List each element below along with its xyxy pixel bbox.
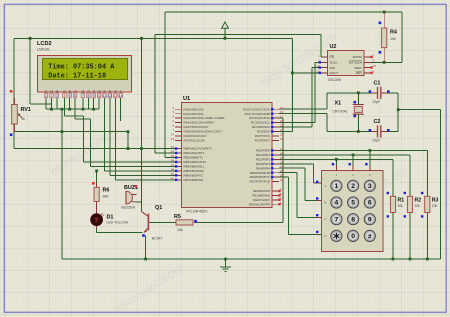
wire LCD D7 stub — [120, 98, 122, 121]
svg-text:RC7/RX/DT: RC7/RX/DT — [255, 138, 270, 142]
wire C right rail — [388, 93, 398, 132]
svg-text:B: B — [325, 201, 327, 205]
svg-text:RD3/PSP3: RD3/PSP3 — [256, 162, 270, 166]
wire U2 DIN to RC4 — [279, 68, 321, 127]
wire VEE drop to ground rail — [61, 109, 63, 259]
svg-text:R5: R5 — [174, 214, 181, 220]
svg-text:CRYSTAL: CRYSTAL — [333, 110, 348, 114]
wire RD3 to keypad row A — [279, 164, 322, 183]
svg-text:Time: 07:35:04 A: Time: 07:35:04 A — [48, 63, 115, 71]
svg-text:RB1/AN10/INT1: RB1/AN10/INT1 — [184, 151, 205, 155]
junction R3 ground — [426, 258, 429, 261]
svg-text:R3: R3 — [432, 198, 439, 204]
svg-text:D4: D4 — [103, 89, 107, 93]
svg-text:22pF: 22pF — [373, 100, 381, 104]
svg-text:RC3/SCK/SCL: RC3/SCK/SCL — [251, 121, 270, 125]
keypad column marks — [336, 173, 371, 177]
wire ground rail bottom — [62, 258, 441, 260]
svg-text:23: 23 — [280, 124, 284, 128]
U1 right pin numbers — [280, 106, 284, 205]
wire LCD RS to RB3 — [64, 98, 175, 162]
svg-text:SCLK: SCLK — [330, 61, 339, 65]
svg-text:11: 11 — [103, 94, 107, 98]
svg-text:10k: 10k — [415, 204, 421, 208]
svg-text:35: 35 — [171, 154, 175, 158]
svg-text:22: 22 — [280, 160, 284, 164]
resistor R1 — [390, 196, 395, 212]
marker R5 right — [194, 220, 197, 223]
svg-text:24: 24 — [280, 128, 284, 132]
wire left rail to RV1 — [13, 38, 15, 104]
marker R6 top — [92, 182, 95, 185]
svg-text:7: 7 — [82, 94, 84, 98]
wire C rail to right edge down to ground — [398, 110, 440, 259]
svg-text:39: 39 — [171, 172, 175, 176]
svg-text:RC0/T1OSO/T13CKI: RC0/T1OSO/T13CKI — [243, 107, 270, 111]
svg-text:INT/SQW: INT/SQW — [349, 61, 362, 65]
wire RD1 to keypad col2 and R2 — [279, 155, 410, 196]
svg-text:25: 25 — [280, 133, 284, 137]
svg-text:LED-YELLOW: LED-YELLOW — [107, 221, 130, 225]
potentiometer RV1 — [12, 98, 23, 132]
svg-text:RE0/RD/AN5: RE0/RD/AN5 — [253, 189, 270, 193]
junction keypad col2 — [352, 154, 355, 157]
U2 left pin labels — [330, 55, 339, 75]
markers keypad top pins — [332, 163, 368, 165]
svg-text:4: 4 — [335, 200, 339, 207]
svg-text:R1: R1 — [398, 198, 405, 204]
wire RD5 to keypad row C — [279, 173, 322, 218]
marker Q1 emitter — [142, 234, 145, 237]
svg-text:4: 4 — [63, 94, 65, 98]
svg-text:RB2/AN8/INT2: RB2/AN8/INT2 — [184, 156, 204, 160]
wire RV1 bottom to VEE bus — [14, 124, 128, 149]
capacitor C1 — [371, 87, 389, 99]
svg-text:12: 12 — [108, 94, 112, 98]
junction ground symbol — [224, 258, 227, 261]
svg-text:RD2/PSP2: RD2/PSP2 — [256, 157, 270, 161]
junction R2 ground — [409, 258, 412, 261]
wire crystal bottom rail to RC1 — [279, 114, 371, 132]
svg-text:DIN: DIN — [330, 66, 335, 70]
svg-text:BC547: BC547 — [152, 237, 162, 241]
LCD pin name marks — [44, 89, 123, 95]
svg-text:8: 8 — [87, 94, 89, 98]
wire crystal bottom lead net — [357, 114, 359, 131]
keypad KEYPAD-SMALLCALC — [316, 166, 383, 252]
resistor R5 — [176, 220, 193, 225]
svg-text:RA0/AN0/C1IN-: RA0/AN0/C1IN- — [184, 107, 204, 111]
marker X1 top — [354, 101, 357, 104]
wire RD2 to keypad col1 and R1 — [279, 159, 393, 196]
svg-text:32KHZ: 32KHZ — [352, 55, 362, 59]
resistor R3 — [425, 196, 430, 212]
svg-text:RB0/AN12/FLT0/INT0: RB0/AN12/FLT0/INT0 — [184, 147, 212, 151]
svg-text:C1: C1 — [374, 81, 381, 87]
svg-text:10k: 10k — [390, 37, 396, 41]
svg-text:RA2/AN2/C2IN+/VREF-/CVREF: RA2/AN2/C2IN+/VREF-/CVREF — [184, 116, 225, 120]
svg-text:C: C — [325, 217, 327, 221]
keypad buttons — [331, 180, 376, 241]
svg-text:CS: CS — [330, 55, 334, 59]
svg-text:RD1/PSP1: RD1/PSP1 — [256, 153, 270, 157]
svg-text:8: 8 — [351, 216, 355, 223]
svg-text:20: 20 — [280, 151, 284, 155]
svg-text:RD4/PSP4: RD4/PSP4 — [256, 166, 270, 170]
wire LCD ground bus — [46, 98, 99, 109]
LCD LCD2 body — [38, 56, 132, 93]
svg-text:RE2/CS/AN7: RE2/CS/AN7 — [253, 198, 270, 202]
markers U2 right pins — [370, 56, 372, 74]
junction RB0 wire x128 — [127, 147, 130, 150]
svg-text:2: 2 — [351, 183, 355, 190]
svg-text:680: 680 — [103, 195, 109, 199]
svg-text:U2: U2 — [330, 44, 337, 50]
markers C1 — [369, 90, 372, 93]
wire Q1 base to R5 — [150, 221, 176, 223]
U2 left pin numbers — [316, 53, 320, 73]
svg-text:36: 36 — [171, 159, 175, 163]
svg-text:10: 10 — [97, 94, 101, 98]
U2 right pin labels — [349, 55, 362, 75]
junction LCD bus dots — [50, 108, 53, 111]
svg-text:LM016L: LM016L — [37, 48, 50, 52]
U1 pin end markers — [175, 108, 274, 181]
junction crystal bottom — [357, 130, 360, 133]
svg-text:2: 2 — [50, 94, 52, 98]
svg-text:C2: C2 — [374, 119, 381, 125]
svg-text:LCD2: LCD2 — [37, 41, 52, 47]
transistor Q1 BC547 — [142, 212, 151, 233]
svg-text:13: 13 — [113, 94, 117, 98]
svg-text:RB3/AN9/CCP2A: RB3/AN9/CCP2A — [184, 160, 207, 164]
wire R3 bottom to ground — [426, 213, 428, 260]
svg-text:9: 9 — [368, 216, 372, 223]
LED D1 — [91, 213, 104, 226]
wire keypad col3 drop — [369, 150, 371, 171]
wire LCD D6 to RB7 — [115, 98, 175, 180]
wire VDD drop to LCD — [30, 38, 51, 104]
markers R2 — [404, 192, 406, 194]
marker RV1 bottom — [10, 133, 13, 136]
svg-text:3: 3 — [56, 94, 58, 98]
U1 left pin labels — [184, 107, 225, 182]
keypad row letters — [325, 184, 327, 238]
junction DOUT on rail B drop — [291, 72, 294, 75]
svg-text:RA3/AN3/C1IN+/VREF+: RA3/AN3/C1IN+/VREF+ — [184, 121, 216, 125]
svg-text:D6: D6 — [114, 89, 118, 93]
resistor R4 — [382, 12, 387, 62]
svg-text:37: 37 — [171, 163, 175, 167]
resistor R6 — [94, 184, 99, 229]
svg-text:17: 17 — [280, 115, 284, 119]
svg-text:10k: 10k — [398, 204, 404, 208]
marker R4 top — [379, 22, 382, 25]
svg-text:D5: D5 — [108, 89, 112, 93]
wire RD6 to keypad row D — [279, 177, 322, 235]
markers R1 — [387, 192, 389, 194]
svg-text:D: D — [325, 234, 327, 238]
svg-text:RA4/T0CKI/C1OUT: RA4/T0CKI/C1OUT — [184, 125, 209, 129]
markers C2 — [369, 129, 372, 132]
marker BUZ1 — [135, 185, 138, 188]
svg-text:RC1/T1OSI/CCP2B: RC1/T1OSI/CCP2B — [245, 112, 270, 116]
svg-text:PIC18F4520: PIC18F4520 — [186, 210, 207, 214]
U1 right pin labels — [243, 107, 271, 206]
svg-text:RA6/OSC2/CLKO: RA6/OSC2/CLKO — [184, 134, 208, 138]
svg-text:RB7/KBI3/PGD: RB7/KBI3/PGD — [184, 178, 204, 182]
svg-text:R4: R4 — [390, 30, 397, 36]
junction C rail mid — [397, 108, 400, 111]
svg-text:D7: D7 — [119, 89, 123, 93]
wire D1 cathode to emitter net — [97, 229, 143, 233]
svg-text:#: # — [368, 233, 372, 240]
svg-text:13: 13 — [171, 137, 175, 141]
markers U2 left pins — [319, 61, 321, 74]
svg-text:RV1: RV1 — [21, 107, 31, 113]
svg-text:RB5/KBI1/PGM: RB5/KBI1/PGM — [184, 169, 205, 173]
wire RD0 to keypad col3 and R3 — [279, 150, 427, 196]
junction bus2 right end — [127, 130, 130, 133]
svg-text:19: 19 — [280, 147, 284, 151]
svg-text:Q1: Q1 — [155, 205, 162, 211]
RTC U2 DS1390 — [321, 51, 371, 76]
wire top rail VDD upper — [165, 12, 402, 62]
svg-text:28: 28 — [280, 169, 284, 173]
svg-text:D2: D2 — [92, 89, 96, 93]
svg-text:R2: R2 — [415, 198, 422, 204]
svg-text:RB6/KBI2/PGC: RB6/KBI2/PGC — [184, 173, 204, 177]
junction R4 bottom — [383, 61, 386, 64]
svg-text:27: 27 — [280, 165, 284, 169]
wire LCD D5 to RB6 — [110, 98, 175, 176]
svg-text:DOUT: DOUT — [330, 71, 339, 75]
svg-text:15: 15 — [280, 106, 284, 110]
marker RV1 top — [10, 90, 13, 93]
svg-text:E: E — [73, 90, 77, 92]
junction buzzer net on RB0 wire — [140, 147, 143, 150]
junction R6 top on RB5 wire — [95, 170, 98, 173]
wire R2 bottom to ground — [409, 213, 411, 260]
svg-text:29: 29 — [280, 174, 284, 178]
svg-text:VBAT: VBAT — [354, 66, 362, 70]
svg-text:D0: D0 — [81, 89, 85, 93]
junction R1 ground — [392, 258, 395, 261]
wire buzzer pin to net — [137, 201, 142, 203]
svg-text:RA7/OSC1/CLKI: RA7/OSC1/CLKI — [184, 138, 206, 142]
svg-text:6: 6 — [74, 94, 76, 98]
svg-text:RC5/SDO: RC5/SDO — [257, 130, 271, 134]
svg-text:R6: R6 — [103, 188, 110, 194]
ground symbol — [220, 259, 231, 271]
wire keypad col2 drop — [352, 155, 354, 171]
svg-text:RD7/PSP7/P1D: RD7/PSP7/P1D — [250, 180, 270, 184]
svg-text:RC2/CCP1/P1A: RC2/CCP1/P1A — [249, 116, 270, 120]
wire vertical rail B to RB1 — [155, 35, 175, 153]
svg-text:14: 14 — [119, 94, 123, 98]
junction VEE bus — [61, 108, 64, 111]
svg-text:38: 38 — [171, 167, 175, 171]
svg-text:5: 5 — [69, 94, 71, 98]
svg-text:22pF: 22pF — [373, 139, 381, 143]
svg-text:7: 7 — [335, 216, 339, 223]
svg-text:18: 18 — [280, 119, 284, 123]
LCD pin number boxes pins 1-14 — [44, 93, 122, 98]
U1 left pin numbers — [171, 106, 175, 181]
wire R6 top to RB5 net — [96, 171, 98, 187]
marker X1 bottom — [354, 115, 357, 118]
Q1 emitter arrow — [144, 229, 147, 232]
junction VCC arrow — [224, 37, 227, 40]
svg-text:A: A — [325, 184, 327, 188]
markers R3 — [421, 192, 423, 194]
svg-text:RD0/PSP0: RD0/PSP0 — [256, 149, 270, 153]
svg-text:RB4/KBI0/AN11: RB4/KBI0/AN11 — [184, 165, 205, 169]
buzzer BUZ1 — [126, 191, 137, 204]
svg-text:RD6/PSP6/P1C: RD6/PSP6/P1C — [250, 175, 270, 179]
junction R4 top — [383, 11, 386, 14]
wire crystal top rail to RC0 — [279, 93, 371, 109]
wire R5 to RC2 — [194, 118, 283, 222]
svg-text:RC6/TX/CK: RC6/TX/CK — [255, 134, 270, 138]
wire LCD E to RB4 — [75, 98, 175, 167]
svg-text:D1: D1 — [107, 214, 114, 220]
wire vertical from top rail to RB2 — [165, 12, 175, 158]
svg-text:1: 1 — [45, 94, 47, 98]
svg-text:RE1/WR/AN6: RE1/WR/AN6 — [252, 194, 270, 198]
svg-text:D1: D1 — [87, 89, 91, 93]
svg-text:6: 6 — [368, 200, 372, 207]
U2 right pin numbers — [373, 53, 377, 73]
junction bus2 VEE — [61, 130, 64, 133]
svg-text:RST: RST — [356, 71, 362, 75]
svg-text:U1: U1 — [183, 96, 190, 102]
svg-text:1k: 1k — [21, 117, 25, 121]
wire R1 bottom to ground — [392, 213, 394, 260]
wire second rail VCC — [14, 38, 292, 131]
wire keypad col1 drop — [335, 159, 337, 171]
svg-text:9: 9 — [93, 94, 95, 98]
svg-text:RD5/PSP5/P1B: RD5/PSP5/P1B — [250, 171, 270, 175]
svg-text:DS1390: DS1390 — [328, 78, 341, 82]
svg-text:0: 0 — [351, 233, 355, 240]
junction keypad col1 — [335, 158, 338, 161]
svg-text:26: 26 — [280, 137, 284, 141]
wire buzzer net vertical — [141, 38, 143, 211]
power symbol VCC arrow — [222, 22, 229, 38]
wire RD4 to keypad row B — [279, 168, 322, 200]
svg-text:RC4/SDI/SDA: RC4/SDI/SDA — [252, 125, 270, 129]
svg-text:RA5/AN4/SS/HLVDIN/C2OUT: RA5/AN4/SS/HLVDIN/C2OUT — [184, 130, 223, 134]
svg-text:Date: 17-11-18: Date: 17-11-18 — [48, 72, 106, 80]
crystal X1 — [353, 105, 364, 115]
svg-text:34: 34 — [171, 150, 175, 154]
svg-text:1: 1 — [335, 183, 339, 190]
svg-text:10k: 10k — [177, 228, 183, 232]
wire left rail down to RB0 long wire — [14, 132, 175, 149]
microcontroller U1 PIC18F4520 — [175, 103, 279, 208]
wire upper rail C to U2 CS — [155, 35, 328, 57]
svg-text:5: 5 — [351, 200, 355, 207]
svg-text:D3: D3 — [97, 89, 101, 93]
svg-text:RE3/MCLR/VPP: RE3/MCLR/VPP — [249, 202, 270, 206]
svg-text:33: 33 — [171, 145, 175, 149]
junction VDD rail LCD drop — [29, 37, 32, 40]
svg-text:16: 16 — [280, 110, 284, 114]
wire U2 DOUT to RC5 — [292, 72, 321, 74]
svg-text:14: 14 — [171, 133, 175, 137]
junction buzzer net on rail B — [140, 37, 143, 40]
wire U2 SCLK to RC3 — [279, 62, 321, 122]
svg-text:40: 40 — [171, 176, 175, 180]
svg-text:10k: 10k — [432, 204, 438, 208]
svg-text:21: 21 — [280, 156, 284, 160]
svg-text:BUZZER: BUZZER — [122, 206, 136, 210]
junction emitter ground — [144, 258, 147, 261]
svg-text:3: 3 — [368, 183, 372, 190]
junction crystal top — [357, 91, 360, 94]
capacitor C2 — [371, 125, 389, 137]
wire crystal top lead net — [357, 93, 359, 105]
svg-text:15: 15 — [373, 64, 377, 68]
resistor R2 — [407, 196, 412, 212]
wire LCD D4 to RB5 — [105, 98, 176, 171]
wire Q1 emitter to ground rail — [145, 236, 147, 260]
svg-text:RA1/AN1/C2IN-: RA1/AN1/C2IN- — [184, 112, 204, 116]
marker R4 bottom — [379, 51, 382, 54]
svg-text:X1: X1 — [335, 101, 342, 107]
markers keypad row pins — [316, 181, 318, 233]
svg-text:30: 30 — [280, 178, 284, 182]
junction keypad col3 — [368, 149, 371, 152]
